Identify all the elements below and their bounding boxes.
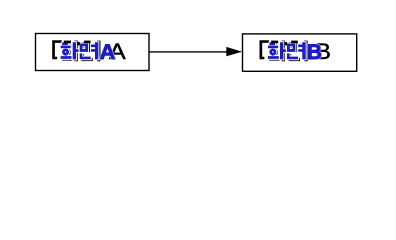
blue HWA (268, 42, 286, 59)
black bracket (260, 40, 270, 59)
label 화면B in box B : blue overprint with white halo (268, 41, 322, 64)
blue HWA (61, 42, 79, 59)
svg-text:A: A (100, 41, 116, 64)
blue HWA halo (61, 42, 79, 59)
blue MYEON (287, 42, 306, 59)
blue MYEON (80, 42, 99, 59)
box: screen A (left rectangle) (36, 34, 150, 71)
label [화면B] in box B : black underprint (260, 39, 332, 64)
black HWA (offset ghost) (269, 41, 287, 62)
blue HWA halo (268, 42, 286, 59)
blue MYEON halo (80, 42, 99, 59)
svg-text:B: B (307, 41, 322, 64)
label [화면A] in box A : black underprint (52, 39, 126, 64)
arrowhead (226, 47, 242, 56)
black bracket (52, 40, 62, 59)
label 화면A in box A : blue overprint with white halo (61, 41, 116, 64)
black ghost ticks peeking above blue glyphs (271, 41, 278, 44)
blue MYEON halo (287, 42, 306, 59)
black ghost ticks peeking above blue glyphs (64, 41, 71, 44)
wire: arrow shaft from box A to box B (150, 51, 229, 53)
box: screen B (right rectangle) (243, 34, 357, 71)
black MYEON (offset ghost) (289, 41, 308, 62)
black MYEON (offset ghost) (81, 41, 100, 62)
black HWA (offset ghost) (62, 41, 80, 62)
